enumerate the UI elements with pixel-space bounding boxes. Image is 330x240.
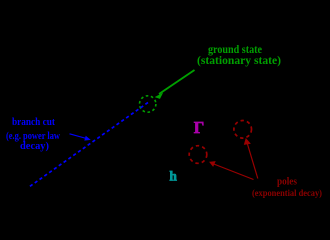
label: poles (red)	[252, 175, 322, 199]
pole P2 (red dashed circle, upper-right)	[234, 121, 252, 139]
branch cut (blue dashed line)	[29, 103, 148, 188]
svg-text:decay): decay)	[20, 141, 49, 152]
pole P1 (red dashed circle, lower-left)	[189, 146, 207, 164]
svg-text:branch cut: branch cut	[12, 116, 55, 128]
svg-text:(exponential decay): (exponential decay)	[252, 188, 322, 199]
leader line from poles label to P2	[245, 139, 258, 179]
label: bound/ground state (green)	[197, 42, 281, 67]
node: stationary-state zero (green dashed circle)	[140, 96, 156, 112]
leader line from green label to circle	[156, 70, 195, 98]
label: branch cut (blue)	[6, 116, 60, 152]
leader line from poles label to P1	[210, 162, 254, 180]
arrow from blue label to branch cut	[70, 134, 90, 140]
svg-text:h: h	[169, 168, 177, 183]
svg-text:Γ: Γ	[194, 118, 205, 137]
svg-text:poles: poles	[277, 175, 297, 187]
svg-text:(stationary state): (stationary state)	[197, 53, 281, 67]
